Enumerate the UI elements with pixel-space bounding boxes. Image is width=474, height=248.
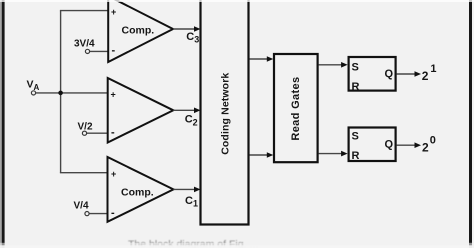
svg-text:+: + (111, 90, 116, 100)
svg-text:2: 2 (422, 69, 429, 83)
terminal V/4 circle (85, 212, 89, 216)
svg-text:Comp.: Comp. (121, 187, 154, 199)
comparator U2 triangle (middle) (108, 78, 174, 143)
arrowhead C2 into Coding Network (194, 108, 201, 114)
wire node C2 output (173, 109, 197, 111)
terminal VA circle (31, 91, 35, 95)
arrowhead into Read Gates (lower) (267, 152, 274, 158)
comparator U1 triangle (bottom) (108, 157, 174, 222)
svg-text:Coding Network: Coding Network (220, 73, 232, 155)
page left border line (0, 0, 2, 248)
arrowhead into Read Gates (upper) (267, 56, 274, 62)
svg-text:0: 0 (430, 134, 436, 146)
wire latch U5 Q output (397, 144, 418, 146)
latch U4 SR box (top) (349, 57, 396, 91)
wire to top comparator plus (60, 10, 108, 12)
wire node VA horizontal (36, 92, 108, 94)
wire to bottom comparator plus (60, 172, 108, 174)
svg-text:R: R (352, 81, 360, 93)
latch U5 SR box (bottom) (349, 128, 396, 162)
arrowhead into latch U4 (341, 62, 348, 68)
svg-text:Read Gates: Read Gates (290, 77, 302, 141)
svg-text:-: - (112, 45, 116, 57)
arrowhead output 2^1 (415, 71, 422, 77)
arrowhead into latch U5 (341, 151, 348, 157)
wire 3V/4 reference to U3 minus (90, 50, 108, 52)
wire node C1 output (173, 188, 197, 190)
wire V/2 reference to U2 minus (87, 132, 108, 134)
top white blur band (0, 0, 474, 2)
arrowhead C3 into Coding Network (194, 26, 201, 32)
wire Read Gates to latch U4 S input (319, 64, 345, 66)
svg-text:-: - (111, 127, 115, 139)
svg-text:1: 1 (430, 63, 436, 75)
node VA junction dot (58, 91, 63, 96)
svg-text:S: S (352, 131, 359, 143)
svg-text:-: - (111, 207, 115, 219)
svg-text:S: S (352, 62, 359, 74)
wire Read Gates to latch U5 R input (319, 153, 345, 155)
page right border line (469, 0, 472, 248)
arrowhead output 2^0 (415, 142, 422, 148)
comparator U3 triangle (top) (108, 0, 173, 62)
svg-text:V/2: V/2 (78, 122, 93, 133)
svg-text:V/4: V/4 (74, 201, 89, 212)
svg-text:Q: Q (385, 68, 394, 80)
block Read Gates box (274, 54, 318, 162)
block Coding Network box (201, 0, 249, 225)
svg-text:+: + (111, 7, 116, 17)
svg-text:3V/4: 3V/4 (74, 39, 95, 50)
svg-text:Comp.: Comp. (122, 25, 155, 37)
terminal V/2 circle (82, 131, 86, 135)
svg-text:R: R (352, 150, 360, 162)
wire Coding Network to Read Gates (upper) (250, 58, 270, 60)
terminal 3V/4 circle (85, 49, 89, 53)
svg-text:+: + (111, 169, 116, 179)
wire V/4 reference to U1 minus (89, 213, 108, 215)
wire Coding Network to Read Gates (lower) (250, 154, 270, 156)
wire node C3 output (173, 28, 197, 30)
svg-text:2: 2 (422, 140, 429, 154)
wire VA bus vertical (60, 11, 62, 173)
arrowhead C1 into Coding Network (194, 187, 201, 193)
wire latch U4 Q output (397, 73, 418, 75)
svg-text:Q: Q (385, 138, 394, 150)
